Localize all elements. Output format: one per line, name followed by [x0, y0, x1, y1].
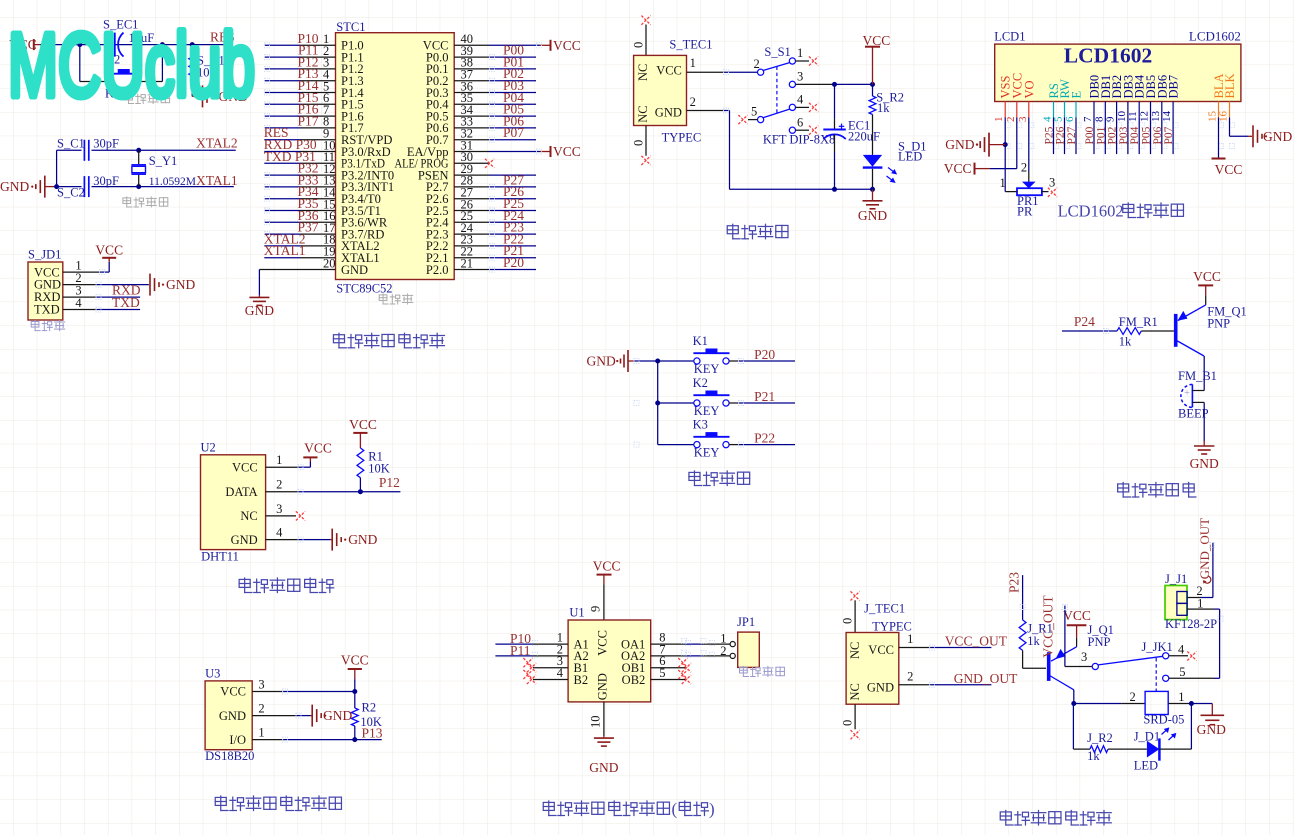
svg-text:NC: NC: [848, 642, 862, 659]
svg-text:0: 0: [841, 618, 855, 624]
svg-text:J_D1: J_D1: [1134, 730, 1160, 744]
svg-text:GND: GND: [323, 708, 352, 723]
svg-text:2: 2: [276, 478, 282, 492]
svg-text:KEY: KEY: [694, 445, 720, 459]
svg-text:PNP: PNP: [1088, 635, 1111, 649]
svg-text:VCC: VCC: [553, 144, 581, 159]
svg-text:P05: P05: [1141, 126, 1153, 144]
svg-text:P17: P17: [297, 113, 318, 128]
svg-text:4: 4: [75, 296, 82, 310]
svg-text:XTAL2: XTAL2: [196, 135, 238, 150]
svg-text:1: 1: [258, 726, 264, 740]
svg-text:VO: VO: [1022, 80, 1036, 98]
svg-text:LED: LED: [1134, 759, 1158, 773]
svg-text:P07: P07: [1163, 126, 1175, 144]
svg-text:7: 7: [1082, 116, 1094, 122]
svg-text:VCC: VCC: [553, 38, 581, 53]
svg-text:NC: NC: [636, 105, 650, 122]
svg-text:4: 4: [1178, 643, 1185, 657]
svg-text:LCD1602: LCD1602: [1058, 202, 1124, 221]
svg-text:LCD1602: LCD1602: [1189, 29, 1241, 44]
svg-text:13: 13: [1150, 111, 1162, 123]
svg-text:VCC_OUT: VCC_OUT: [1040, 595, 1055, 658]
svg-text:5: 5: [1053, 116, 1065, 122]
svg-text:12: 12: [1139, 111, 1151, 122]
svg-text:P13: P13: [362, 725, 383, 740]
svg-text:GND: GND: [867, 681, 894, 695]
svg-text:1k: 1k: [1119, 334, 1132, 348]
svg-text:2: 2: [258, 702, 264, 716]
svg-text:R2: R2: [362, 701, 377, 715]
svg-text:10: 10: [589, 716, 603, 729]
svg-text:1k: 1k: [1027, 634, 1040, 648]
svg-text:GND: GND: [858, 208, 887, 223]
svg-text:GND_OUT: GND_OUT: [954, 671, 1018, 686]
svg-text:U1: U1: [569, 606, 584, 620]
svg-text:P04: P04: [1129, 126, 1141, 144]
svg-text:(: (: [672, 800, 678, 819]
svg-text:2: 2: [754, 57, 760, 71]
svg-text:KF128-2P: KF128-2P: [1165, 617, 1217, 631]
svg-text:9: 9: [589, 606, 603, 612]
svg-text:1k: 1k: [1087, 749, 1100, 763]
svg-text:5: 5: [1179, 665, 1185, 679]
svg-text:GND: GND: [231, 533, 258, 547]
svg-text:3: 3: [1081, 650, 1087, 664]
svg-text:SRD-05: SRD-05: [1143, 713, 1184, 727]
svg-text:P21: P21: [754, 389, 775, 404]
svg-text:STC1: STC1: [336, 20, 365, 34]
svg-text:S_TEC1: S_TEC1: [669, 37, 712, 51]
svg-text:P00: P00: [1084, 126, 1096, 144]
svg-text:GND: GND: [1197, 722, 1226, 737]
svg-text:2: 2: [1021, 160, 1027, 174]
svg-text:S_JD1: S_JD1: [28, 248, 61, 262]
svg-text:DB7: DB7: [1167, 75, 1181, 99]
svg-text:14: 14: [1161, 111, 1173, 123]
svg-text:TXD: TXD: [34, 303, 60, 317]
svg-text:P23: P23: [1007, 572, 1022, 593]
svg-text:21: 21: [461, 256, 474, 270]
svg-text:9: 9: [1105, 116, 1117, 122]
svg-text:10: 10: [1116, 111, 1128, 123]
svg-text:DHT11: DHT11: [201, 550, 239, 564]
svg-text:8: 8: [1093, 116, 1105, 122]
svg-text:VCC: VCC: [596, 630, 610, 656]
svg-text:P20: P20: [754, 347, 775, 362]
svg-text:KEY: KEY: [694, 404, 720, 418]
svg-text:K2: K2: [693, 376, 708, 390]
svg-text:5: 5: [751, 105, 757, 119]
svg-text:BLK: BLK: [1223, 74, 1237, 99]
svg-text:3: 3: [258, 678, 264, 692]
svg-text:P26: P26: [1055, 126, 1067, 144]
svg-text:1: 1: [1000, 176, 1006, 190]
svg-text:VCC: VCC: [868, 643, 894, 657]
svg-text:JP1: JP1: [737, 615, 755, 629]
svg-text:J_TEC1: J_TEC1: [864, 602, 905, 616]
svg-text:VCC: VCC: [944, 161, 972, 176]
svg-text:2: 2: [690, 95, 696, 109]
svg-text:P06: P06: [1152, 126, 1164, 144]
svg-text:): ): [709, 800, 715, 819]
svg-text:VCC: VCC: [232, 460, 258, 474]
svg-text:XTAL1: XTAL1: [196, 173, 238, 188]
svg-text:1k: 1k: [877, 101, 890, 115]
svg-text:NC: NC: [636, 64, 650, 81]
svg-text:NC: NC: [848, 683, 862, 700]
svg-text:PNP: PNP: [1207, 316, 1230, 330]
svg-text:VCC: VCC: [349, 417, 377, 432]
svg-text:LED: LED: [898, 149, 922, 163]
svg-text:16: 16: [1218, 111, 1230, 123]
svg-text:+: +: [1184, 388, 1190, 399]
svg-text:P24: P24: [1074, 314, 1095, 329]
svg-text:S_C2: S_C2: [57, 186, 85, 200]
svg-text:I/O: I/O: [229, 733, 246, 747]
svg-text:GND: GND: [219, 709, 246, 723]
svg-text:P20: P20: [503, 255, 524, 270]
svg-text:LCD1: LCD1: [994, 30, 1025, 44]
svg-text:2: 2: [720, 644, 726, 658]
svg-text:P27: P27: [1066, 126, 1078, 144]
svg-text:J_J1: J_J1: [1165, 572, 1187, 586]
svg-text:S_C1: S_C1: [57, 136, 85, 150]
svg-text:P2.0: P2.0: [426, 263, 449, 277]
svg-text:VCC: VCC: [593, 559, 621, 574]
svg-text:11: 11: [1127, 111, 1139, 122]
svg-text:LCD1602: LCD1602: [1064, 44, 1152, 68]
svg-text:J_JK1: J_JK1: [1142, 640, 1173, 654]
svg-text:P01: P01: [1095, 126, 1107, 144]
svg-text:1: 1: [1197, 597, 1203, 611]
svg-text:GND: GND: [348, 532, 377, 547]
svg-text:K1: K1: [693, 334, 708, 348]
svg-text:4: 4: [797, 93, 804, 107]
svg-text:10K: 10K: [368, 461, 390, 475]
svg-text:2: 2: [907, 670, 913, 684]
svg-text:30pF: 30pF: [93, 136, 119, 150]
svg-text:KEY: KEY: [694, 362, 720, 376]
svg-text:FM_B1: FM_B1: [1178, 369, 1217, 383]
svg-text:DATA: DATA: [225, 485, 257, 499]
svg-text:NC: NC: [240, 509, 257, 523]
svg-text:S_Y1: S_Y1: [149, 154, 177, 168]
svg-text:J_R2: J_R2: [1087, 731, 1113, 745]
svg-text:30pF: 30pF: [93, 174, 119, 188]
svg-text:E: E: [1070, 91, 1084, 99]
svg-text:VCC: VCC: [656, 64, 682, 78]
svg-text:2: 2: [1130, 690, 1136, 704]
svg-text:4: 4: [276, 526, 283, 540]
svg-text:0: 0: [632, 140, 646, 146]
svg-text:GND: GND: [596, 673, 610, 700]
svg-text:220uF: 220uF: [848, 129, 880, 143]
svg-text:VCC: VCC: [1215, 162, 1243, 177]
svg-text:P02: P02: [1107, 126, 1119, 144]
svg-text:GND: GND: [587, 354, 616, 369]
svg-text:TYPEC: TYPEC: [662, 131, 702, 145]
svg-text:20: 20: [323, 256, 336, 270]
svg-text:K3: K3: [693, 417, 708, 431]
svg-text:B2: B2: [574, 673, 589, 687]
svg-text:1: 1: [797, 46, 803, 60]
svg-text:P07: P07: [503, 125, 524, 140]
svg-text:DS18B20: DS18B20: [205, 749, 254, 763]
svg-text:2: 2: [1005, 117, 1017, 123]
svg-text:FM_R1: FM_R1: [1119, 315, 1158, 329]
svg-text:TYPEC: TYPEC: [872, 620, 912, 634]
svg-text:PR: PR: [1017, 205, 1033, 219]
svg-text:1: 1: [993, 117, 1005, 123]
svg-text:P22: P22: [754, 430, 775, 445]
svg-text:GND_OUT: GND_OUT: [1197, 518, 1212, 579]
svg-text:TXD: TXD: [112, 295, 140, 310]
svg-text:3: 3: [1017, 116, 1029, 122]
svg-text:S_S1: S_S1: [764, 45, 790, 59]
svg-text:GND: GND: [945, 137, 974, 152]
svg-text:P12: P12: [379, 475, 400, 490]
svg-text:VCC_OUT: VCC_OUT: [945, 634, 1008, 649]
svg-text:P03: P03: [1118, 126, 1130, 144]
svg-text:STC89C52: STC89C52: [336, 282, 392, 296]
svg-text:GND: GND: [166, 277, 195, 292]
svg-text:0: 0: [841, 720, 855, 726]
svg-text:1: 1: [907, 632, 913, 646]
svg-text:VCC: VCC: [304, 440, 332, 455]
svg-text:GND: GND: [589, 760, 618, 775]
svg-text:0: 0: [632, 42, 646, 48]
svg-text:1: 1: [690, 56, 696, 70]
svg-text:GND: GND: [655, 106, 682, 120]
svg-text:GND: GND: [245, 303, 274, 318]
svg-text:U2: U2: [201, 440, 216, 454]
svg-text:MCUclub: MCUclub: [8, 16, 255, 116]
svg-text:3: 3: [797, 70, 803, 84]
svg-text:3: 3: [276, 502, 282, 516]
svg-text:VCC: VCC: [1063, 608, 1091, 623]
svg-text:KFT DIP-8X8: KFT DIP-8X8: [763, 133, 835, 147]
svg-text:VCC: VCC: [1193, 269, 1221, 284]
svg-text:GND: GND: [0, 179, 29, 194]
svg-text:1: 1: [276, 453, 282, 467]
svg-text:6: 6: [797, 116, 803, 130]
svg-text:VCC: VCC: [220, 685, 246, 699]
svg-text:OB2: OB2: [622, 673, 646, 687]
svg-text:GND: GND: [341, 263, 368, 277]
svg-text:GND: GND: [1190, 456, 1219, 471]
svg-text:3: 3: [1049, 176, 1055, 190]
svg-text:1: 1: [1178, 690, 1184, 704]
svg-text:U3: U3: [205, 666, 220, 680]
svg-text:VCC: VCC: [95, 242, 123, 257]
svg-text:XTAL1: XTAL1: [264, 243, 306, 258]
svg-text:VCC: VCC: [341, 653, 369, 668]
svg-text:6: 6: [1064, 116, 1076, 122]
svg-text:11.0592M: 11.0592M: [149, 176, 196, 188]
svg-text:GND: GND: [1263, 129, 1292, 144]
